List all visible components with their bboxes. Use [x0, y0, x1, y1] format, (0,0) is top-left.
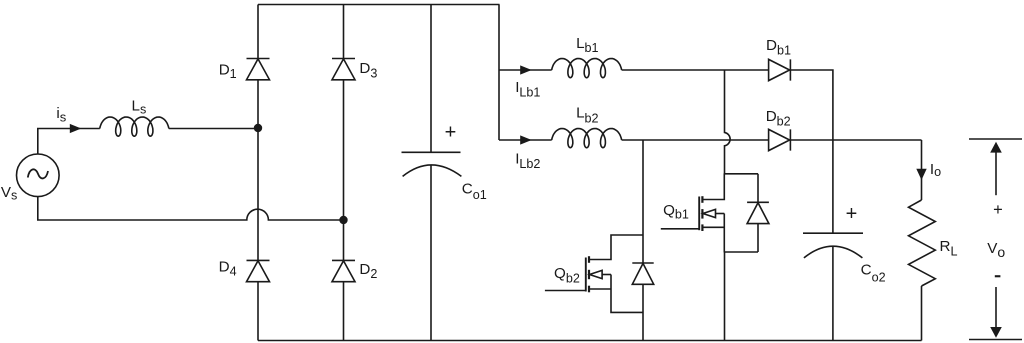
diode D2 — [332, 260, 355, 281]
svg-text:Vo: Vo — [987, 240, 1005, 260]
wire to Lb1 — [499, 69, 552, 71]
svg-text:+: + — [445, 122, 457, 144]
svg-text:Ls: Ls — [132, 97, 147, 116]
svg-text:ILb1: ILb1 — [515, 79, 540, 100]
svg-text:D2: D2 — [359, 261, 377, 281]
svg-text:Io: Io — [930, 161, 941, 179]
wire Co1 bottom stem — [430, 165, 432, 340]
wire Vo lower arrow — [995, 287, 997, 327]
diode Db2 — [769, 129, 791, 150]
ac source Vs — [17, 154, 60, 197]
arrow Io current direction — [916, 169, 926, 180]
wire bridge left leg upper — [257, 5, 259, 59]
diode Db1 — [769, 59, 791, 80]
diode D3 — [332, 59, 355, 80]
capacitor Co1 — [402, 152, 462, 176]
wire Co2 bottom stem — [832, 247, 834, 341]
diode D1 — [247, 59, 270, 80]
inductor Lb2 — [552, 129, 622, 148]
label Vo minus — [995, 275, 1001, 277]
svg-text:is: is — [56, 105, 66, 125]
arrow is current direction — [70, 124, 82, 133]
svg-text:Co2: Co2 — [861, 262, 886, 285]
svg-text:ILb2: ILb2 — [515, 151, 540, 172]
svg-text:D1: D1 — [219, 62, 237, 81]
wire bridge left leg lower — [257, 282, 259, 341]
node dot Vs return junction — [339, 216, 347, 224]
wire Lb2 to Db2 — [622, 139, 769, 141]
wire Vs return with hop over left leg — [38, 197, 344, 220]
diode Qb1 body diode — [747, 174, 769, 252]
svg-text:+: + — [846, 203, 858, 225]
svg-text:Qb2: Qb2 — [554, 265, 580, 286]
svg-text:Db1: Db1 — [766, 37, 791, 58]
wire Lb1 node down, hop over Lb2 wire — [725, 70, 731, 174]
wire to Lb2 — [499, 139, 552, 141]
transistor Qb2 — [545, 235, 643, 312]
wire Qb1 leg to bottom rail — [724, 252, 726, 341]
wire bridge right leg upper — [343, 5, 345, 59]
svg-text:Db2: Db2 — [766, 108, 791, 129]
wire Qb1 bottom tie — [724, 251, 758, 253]
wire RL to bottom rail — [921, 286, 923, 341]
svg-text:RL: RL — [940, 238, 958, 259]
wire Ls to bridge node — [169, 128, 258, 130]
transistor Qb1 — [661, 174, 725, 252]
node dot Ls/D1/D4 junction — [254, 124, 262, 132]
svg-text:Lb1: Lb1 — [576, 35, 598, 55]
wire Co1 top stem — [430, 5, 432, 153]
svg-text:D3: D3 — [359, 60, 377, 81]
resistor RL — [909, 200, 936, 286]
inductor Lb1 — [552, 59, 622, 78]
wire Lb1 to Db1 — [622, 69, 769, 71]
wire Qb1 top tie — [724, 173, 758, 175]
diode Qb2 body diode — [632, 263, 653, 284]
wire bottom rail — [258, 340, 922, 342]
inductor Ls — [100, 117, 169, 136]
diode D4 — [247, 260, 270, 281]
arrow ILb1 current direction — [520, 65, 532, 74]
svg-text:+: + — [993, 201, 1003, 219]
capacitor Co2 — [803, 233, 863, 258]
svg-text:Qb1: Qb1 — [663, 202, 689, 222]
wire bridge right leg middle — [343, 80, 345, 261]
wire output top to RL — [921, 140, 923, 200]
wire rail right drop to boost branches — [498, 5, 500, 141]
wire Vo upper arrow — [995, 152, 997, 195]
svg-text:Co1: Co1 — [462, 180, 487, 202]
wire Vs to Ls — [38, 129, 100, 155]
wire Db2 to output — [790, 139, 921, 141]
wire bridge left leg middle — [257, 80, 259, 261]
wire Db1 to output node, drop to Co2 — [790, 70, 833, 233]
wire Lb2 node down to Qb2 — [642, 140, 644, 263]
svg-text:D4: D4 — [219, 259, 237, 279]
wire Qb2 leg to bottom rail — [642, 284, 644, 341]
svg-text:Lb2: Lb2 — [576, 105, 598, 126]
svg-text:Vs: Vs — [1, 184, 17, 203]
node Vo top reference bar — [969, 138, 1022, 140]
arrow ILb2 current direction — [520, 135, 532, 144]
node Vo bottom reference bar — [969, 339, 1022, 341]
wire bridge right leg lower — [343, 282, 345, 341]
wire top rail — [258, 4, 500, 6]
